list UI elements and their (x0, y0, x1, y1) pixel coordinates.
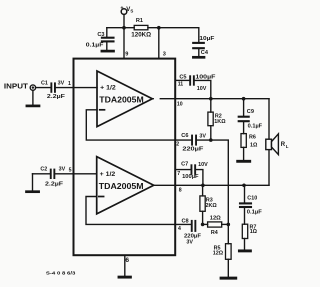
svg-text:3V: 3V (199, 134, 206, 140)
svg-text:12Ω: 12Ω (213, 251, 224, 257)
svg-text:+: + (120, 6, 123, 12)
capacitor C10 0.1µF (240, 185, 251, 207)
resistor R6 1Ω (241, 122, 246, 147)
ground pin 6 (119, 276, 130, 279)
svg-text:9: 9 (125, 51, 128, 57)
ground C2 (27, 174, 39, 192)
svg-text:C2: C2 (40, 167, 47, 173)
wire pin 9 drop (123, 28, 125, 59)
node output2/C10 (242, 184, 246, 188)
svg-text:S: S (130, 9, 133, 14)
svg-text:7: 7 (177, 171, 180, 177)
op-amp U2 bottom half (97, 157, 154, 214)
svg-text:+ 1/2: + 1/2 (100, 171, 116, 178)
node output1/C5/R2 (209, 97, 213, 101)
capacitor C7 100µF (191, 164, 197, 175)
svg-text:2KΩ: 2KΩ (206, 203, 218, 209)
wire output 2 (pin 8) (154, 184, 269, 186)
wire pin 3 drop (158, 28, 160, 59)
svg-text:3V: 3V (58, 80, 65, 86)
svg-text:C4: C4 (201, 50, 209, 56)
svg-text:100µF: 100µF (195, 75, 216, 81)
svg-text:10V: 10V (197, 86, 207, 92)
wire C1 to pin 1 (56, 87, 97, 89)
node A junction (209, 138, 213, 142)
svg-text:0.1µF: 0.1µF (248, 124, 263, 130)
wire feedback bottom amp to pin 4 (86, 197, 191, 225)
svg-text:INPUT: INPUT (4, 83, 29, 90)
svg-text:2: 2 (176, 142, 179, 148)
svg-text:100µF: 100µF (182, 174, 199, 180)
svg-text:2.2µF: 2.2µF (45, 182, 64, 188)
op-amp IC outline TDA2005M (74, 59, 176, 256)
capacitor C4 10µF (193, 28, 204, 49)
svg-text:S-4 0 8 6/3: S-4 0 8 6/3 (46, 270, 76, 276)
svg-text:10: 10 (177, 101, 183, 107)
speaker RL (266, 134, 279, 155)
resistor R7 1Ω (242, 208, 247, 239)
wire pin 11 stub (175, 79, 189, 81)
wire C2 to pin 5 (55, 173, 96, 175)
ground C4 (193, 49, 204, 57)
resistor R4 12Ω (203, 222, 229, 227)
svg-text:0.1µF: 0.1µF (247, 209, 263, 215)
wire supply rail (107, 27, 199, 29)
svg-text:C7: C7 (181, 161, 188, 167)
resistor R1 120KΩ (134, 25, 148, 29)
svg-text:R1: R1 (136, 18, 143, 24)
capacitor C3 0.1µF (102, 28, 114, 42)
svg-text:5: 5 (69, 167, 72, 173)
wire C7 to output 2 (196, 170, 203, 186)
resistor R3 2KΩ (200, 185, 205, 224)
ground R5 (221, 259, 236, 278)
node B junction C8/R3/R4 (201, 223, 205, 227)
ground C3 (102, 42, 114, 51)
minus input top amp (100, 109, 105, 111)
supply terminal +Vs (121, 9, 127, 28)
svg-text:C10: C10 (247, 195, 257, 201)
label +Vs (120, 6, 133, 14)
node C junction R4/R5 (227, 223, 231, 227)
svg-text:10µF: 10µF (199, 36, 215, 42)
svg-text:+ 1/2: + 1/2 (100, 84, 116, 91)
node Vs junction (122, 26, 126, 30)
svg-text:C3: C3 (97, 32, 104, 38)
svg-text:R4: R4 (211, 230, 218, 236)
svg-text:1KΩ: 1KΩ (214, 119, 226, 125)
svg-text:1: 1 (68, 81, 71, 87)
svg-text:8: 8 (179, 188, 182, 194)
wire output 1 (pin 10) (151, 98, 154, 100)
svg-text:C1: C1 (41, 80, 48, 86)
svg-text:TDA2005M: TDA2005M (99, 95, 144, 104)
node output1/C9 (242, 97, 246, 101)
wire node A to node C drop (197, 140, 228, 224)
svg-text:C9: C9 (247, 109, 254, 115)
wire feedback top amp to pin 2 (86, 110, 191, 140)
svg-text:C6: C6 (181, 133, 188, 139)
resistor R2 1KΩ (208, 99, 213, 140)
wire input to C1 (36, 87, 51, 89)
capacitor C8 220µF (191, 220, 196, 232)
ground input (27, 90, 39, 106)
node output2/C7/R3 (201, 184, 205, 188)
svg-text:R6: R6 (249, 134, 256, 140)
wire ground to C2 (33, 173, 50, 175)
svg-text:3V: 3V (186, 239, 193, 245)
svg-text:3: 3 (163, 51, 166, 57)
capacitor C5 100µF (189, 75, 195, 85)
ground R6 (238, 147, 250, 161)
svg-text:4: 4 (178, 226, 181, 232)
svg-text:0.1µF: 0.1µF (86, 42, 104, 48)
svg-text:2.2µF: 2.2µF (47, 94, 66, 100)
op-amp U1 top half (97, 71, 152, 127)
wire pin 6 drop (124, 255, 126, 276)
capacitor C2 2.2µF (50, 169, 56, 179)
capacitor C1 2.2µF (50, 82, 56, 92)
svg-text:10V: 10V (198, 162, 208, 168)
svg-text:1Ω: 1Ω (250, 229, 258, 235)
svg-text:11: 11 (178, 82, 184, 88)
svg-text:220µF: 220µF (182, 147, 204, 153)
minus input bottom amp (99, 196, 104, 198)
label RL (281, 142, 289, 149)
svg-text:120KΩ: 120KΩ (131, 32, 151, 38)
svg-text:C8: C8 (182, 219, 189, 225)
svg-text:C5: C5 (179, 74, 186, 80)
capacitor C9 0.1µF (239, 99, 249, 122)
ground R7 (239, 239, 250, 251)
svg-text:L: L (286, 144, 289, 149)
svg-text:12Ω: 12Ω (210, 216, 222, 222)
input terminal (30, 85, 35, 90)
svg-text:TDA2005M: TDA2005M (99, 182, 144, 191)
wire pin 7 stub (175, 169, 190, 171)
svg-text:1Ω: 1Ω (250, 142, 258, 148)
node R1/pin3 junction (157, 26, 161, 30)
svg-text:6: 6 (125, 257, 129, 264)
wire C5 to output node (195, 80, 211, 98)
capacitor C6 220µF (191, 135, 197, 146)
svg-text:3V: 3V (59, 166, 66, 172)
wire speaker drop (268, 99, 270, 186)
resistor R5 12Ω (226, 224, 232, 259)
